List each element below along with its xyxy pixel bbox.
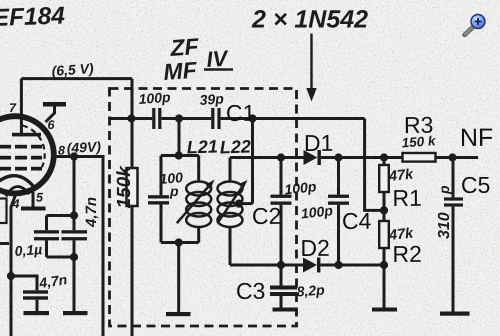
junction C4 bottom [334, 261, 342, 269]
wire L21 tank left branch lower [160, 204, 163, 242]
wire 0,1u loop left upper [45, 216, 48, 231]
svg-text:100p: 100p [138, 89, 171, 107]
tube anode bar [12, 133, 41, 137]
wire R3 to NF terminal [436, 156, 479, 159]
svg-text:39p: 39p [199, 90, 225, 108]
svg-text:0,1µ: 0,1µ [14, 241, 43, 259]
wire L21 tank left branch upper [160, 156, 163, 196]
capacitor 0,1u plates [34, 230, 59, 233]
wire L21 coil top stub [197, 156, 200, 183]
wire C2 branch lower [280, 205, 283, 265]
svg-text:L21: L21 [186, 136, 218, 157]
svg-text:4,7n: 4,7n [83, 197, 100, 228]
wire C5 to ground [452, 207, 455, 312]
ground pin5 [21, 207, 46, 211]
capacitor C4 plates [328, 195, 349, 198]
svg-text:C3: C3 [236, 278, 266, 304]
svg-text:L22: L22 [219, 136, 251, 157]
svg-text:C1: C1 [226, 100, 256, 126]
resistor R3 150k (horizontal) [403, 153, 436, 162]
wire D2 line right [321, 264, 385, 267]
wire L22 tap horizontal [239, 202, 253, 205]
wire L22 bottom stub [229, 227, 232, 266]
svg-text:2 × 1N542: 2 × 1N542 [251, 6, 368, 34]
svg-text:R1: R1 [392, 185, 422, 211]
svg-text:p: p [436, 185, 452, 195]
svg-text:6: 6 [48, 118, 56, 132]
tube grid row 2 [0, 156, 42, 160]
svg-text:4: 4 [12, 197, 20, 211]
wire pin7 lead into tube [20, 79, 23, 133]
wire (6,5V) horizontal run [21, 77, 132, 80]
svg-text:5: 5 [36, 191, 44, 205]
junction R2 bottom [380, 261, 388, 269]
wire L21 tank top [161, 154, 199, 157]
svg-text:(6,5 V): (6,5 V) [51, 60, 94, 79]
ground C5 [440, 312, 470, 316]
junction NF node [448, 153, 456, 161]
svg-text:150k: 150k [114, 165, 135, 209]
tube inner shield dashed arc [23, 126, 45, 168]
wire pin6 stem [46, 107, 55, 123]
junction left rail [7, 272, 15, 280]
wire top coupling line segment 3 (C1 to right corner) [221, 117, 365, 120]
wire C3 to ground [280, 296, 283, 308]
capacitor 100p coupling plates [152, 108, 155, 129]
wire R1 to R2 [383, 192, 386, 221]
junction L22 tap [235, 200, 243, 208]
arrow pointing to diodes [310, 34, 312, 90]
wire top coupling line segment 1 [110, 117, 152, 120]
shield dashed box of IF filter MF IV [110, 89, 297, 327]
wire pin5 lead [32, 192, 35, 207]
svg-text:310: 310 [436, 212, 453, 239]
tube grid row 3 [0, 167, 42, 171]
wire 4,7n bottom cap to ground [36, 300, 39, 311]
wire pin8 run to right and down [56, 157, 104, 336]
ground rail x74 [63, 311, 88, 315]
wire L21 coil bottom stub [197, 227, 200, 243]
junction caps bottom [70, 253, 78, 261]
svg-text:47k: 47k [387, 225, 415, 244]
svg-text:(49V): (49V) [66, 138, 101, 156]
svg-text:100p: 100p [300, 202, 334, 221]
wire R2 bottom stub [383, 248, 386, 308]
ground pin6 [43, 102, 66, 107]
capacitor 4,7n rail plates [62, 230, 88, 233]
wire C4 branch lower [337, 205, 340, 265]
junction node A (6,5V) [127, 114, 135, 122]
wire rail x74 lower [73, 240, 76, 311]
svg-text:D2: D2 [300, 235, 330, 261]
svg-text:p: p [169, 183, 179, 199]
wire below 150k to bottom edge [131, 206, 134, 336]
wire C4 branch upper [337, 158, 340, 195]
capacitor 4,7n bottom plates [23, 290, 48, 293]
svg-text:MF: MF [163, 57, 199, 85]
wire right corner down to R1/R2 midpoint [365, 119, 384, 211]
wire detector line D1 to R3 [321, 156, 403, 159]
junction R1/R2 midpoint [380, 206, 388, 214]
junction R1 top [380, 153, 388, 161]
wire pin4 lead [11, 194, 16, 336]
junction tank top [175, 151, 183, 159]
svg-text:8,2p: 8,2p [296, 282, 326, 300]
inductor L22 adjustable with tap [217, 182, 244, 228]
wire top coupling line segment 2 (between 100p and 39p) [161, 117, 211, 120]
wire tank to ground [177, 243, 180, 313]
junction node B [175, 114, 183, 122]
tube grid row 1 [0, 145, 42, 149]
svg-text:NF: NF [460, 124, 493, 152]
wire L22 bottom to C2 node [230, 264, 281, 267]
ground 4,7n bottom [24, 311, 50, 315]
wire L21 tank bottom [161, 241, 199, 244]
wire R1 top stub [383, 158, 386, 166]
wire drop from (6,5V) run to node A [131, 79, 134, 119]
junction caps top [70, 211, 78, 219]
wire L22 top stub [229, 158, 232, 183]
resistor R2 47k [379, 221, 389, 248]
svg-text:C4: C4 [342, 208, 372, 234]
resistor 150k (vertical, left) [127, 168, 138, 206]
wire detector line L22 to D1 [230, 156, 304, 159]
ground C3 [273, 308, 296, 312]
capacitor C5 310p plates [444, 197, 463, 200]
wire L22 tap vertical to C1 node [251, 119, 254, 204]
junction tank bottom [175, 238, 183, 246]
svg-text:D1: D1 [304, 130, 334, 156]
svg-text:EF184: EF184 [0, 2, 66, 32]
svg-text:8: 8 [58, 144, 65, 158]
wire node B drop to L21 tank [178, 119, 181, 156]
svg-text:R2: R2 [392, 241, 422, 267]
tube EF184 envelope [0, 116, 54, 193]
junction node C1 out [248, 114, 256, 122]
magnifier icon [465, 15, 485, 35]
wire D2 line left [281, 264, 303, 267]
ground R2 [372, 308, 397, 312]
svg-text:C5: C5 [461, 172, 491, 198]
junction pin8 node [70, 152, 78, 160]
left edge component box [0, 199, 7, 224]
svg-text:7: 7 [9, 101, 17, 115]
wire 0,1u loop bottom [47, 256, 75, 259]
wire node A down to resistor 150k [131, 119, 134, 169]
svg-text:100p: 100p [284, 178, 318, 197]
svg-text:C2: C2 [252, 203, 282, 229]
wire C5 branch upper [452, 158, 455, 198]
wire left edge stub [0, 242, 9, 245]
tube cathode arc [0, 176, 34, 190]
capacitor 100p tank plates [148, 195, 169, 198]
inductor L21 adjustable [177, 182, 212, 228]
svg-text:47k: 47k [387, 166, 415, 185]
capacitor C2 plates [271, 195, 292, 198]
wire 0,1u loop top [47, 214, 75, 217]
wire node to 4,7n bottom cap [11, 276, 37, 290]
junction C2 bottom [277, 261, 285, 269]
svg-text:150 k: 150 k [401, 133, 437, 150]
wire C3 stub upper [280, 265, 283, 286]
diode D1 [304, 150, 318, 165]
diode D2 [303, 258, 317, 273]
capacitor C3 8,2p plates [270, 286, 297, 290]
tube heater arc [6, 187, 30, 197]
capacitor 39p C1 plates [211, 108, 214, 129]
wire 0,1u loop left lower [45, 240, 48, 257]
wire rail x74 upper [73, 157, 76, 231]
junction C2 top [277, 153, 285, 161]
resistor R1 47k [379, 165, 389, 192]
junction C4 top [334, 153, 342, 161]
ground L21 tank [166, 312, 191, 316]
wire C2 branch upper [280, 158, 283, 195]
